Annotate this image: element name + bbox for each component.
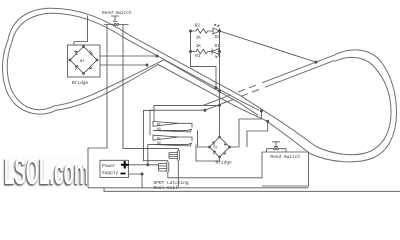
relay contact group 1 wedge — [153, 122, 179, 127]
power - wire — [129, 174, 142, 188]
power supply - terminal mark — [121, 173, 126, 175]
power enclosure: bus — [88, 187, 309, 189]
R2 resistor row — [191, 30, 214, 32]
bridge 2 diodes — [212, 142, 215, 146]
coil 2 lower terminal to reed 2 wire — [167, 172, 169, 178]
track A rail 2 — [52, 13, 259, 110]
svg-text:D1: D1 — [214, 147, 218, 151]
relay frame — [144, 110, 168, 162]
svg-text:NC: NC — [157, 136, 161, 140]
relay common wire 2 to track C — [150, 110, 205, 135]
LED circuit right wire down to track B — [219, 31, 221, 137]
track C rail 1 (right loop knee down-left, broken at crossings) — [262, 55, 334, 83]
svg-text:D2: D2 — [215, 34, 221, 40]
lower long wire — [104, 188, 400, 192]
coil 1 lower terminal to bus — [177, 161, 179, 188]
svg-text:NO: NO — [157, 127, 161, 131]
svg-text:NO: NO — [157, 141, 161, 145]
svg-text:Reed Switch: Reed Switch — [102, 10, 132, 16]
bridge 2 bottom terminal to relay NO2 — [196, 144, 220, 161]
relay contact group 1 NO row — [153, 129, 192, 132]
bridge 2 diamond — [210, 137, 230, 157]
svg-text:B1: B1 — [80, 60, 85, 64]
svg-text:D1: D1 — [215, 43, 221, 49]
svg-text:1K: 1K — [196, 43, 202, 49]
wire from NO row 2 down to + junction — [148, 144, 153, 164]
bridge 2 right terminal wires to track B junctions — [230, 111, 262, 147]
svg-text:Bridge: Bridge — [72, 80, 89, 86]
bridge 1 wires to loop — [74, 16, 88, 46]
LED D1 — [212, 49, 219, 55]
svg-text:Dual Coil: Dual Coil — [154, 185, 179, 191]
relay coil 2 — [159, 164, 167, 172]
power supply box — [100, 160, 129, 177]
svg-text:Reed Switch: Reed Switch — [270, 154, 300, 160]
reed switch 1 right wire down to coil 1 — [123, 25, 178, 152]
bridge 2 left terminal to relay — [198, 130, 210, 147]
bridge 1 diamond — [70, 47, 97, 74]
svg-text:1K: 1K — [196, 35, 202, 41]
bridge 1 box — [68, 45, 101, 77]
svg-text:Bridge: Bridge — [216, 160, 233, 166]
svg-text:R1: R1 — [195, 53, 201, 59]
bridge 1 diodes — [74, 51, 78, 56]
track A rail 1 (left loop top to right loop bottom) — [50, 8, 316, 146]
track C rail 2 — [265, 60, 335, 87]
svg-text:R2: R2 — [195, 23, 201, 29]
bridge 1 output wires to track B — [100, 55, 157, 57]
relay contact group 2 NO row — [153, 143, 192, 146]
svg-text:Power: Power — [102, 163, 116, 169]
relay common wire 1 to track C — [154, 105, 220, 121]
LED circuit left wire down to track A — [191, 31, 217, 88]
right loop outer — [310, 50, 397, 162]
right loop inner — [316, 57, 391, 154]
LSOL.com logo — [0, 155, 87, 190]
reed switch 1 left wire down to bus — [88, 25, 107, 188]
track B rail 2 — [54, 60, 258, 116]
diagonal feed wire to track C at right loop — [220, 31, 317, 62]
svg-text:Supply: Supply — [102, 170, 119, 176]
relay coil 1 — [169, 153, 177, 159]
power supply + terminal mark — [121, 161, 129, 169]
left loop outer rail — [3, 8, 56, 114]
reed 2 wiring box — [262, 152, 309, 186]
reed switch 1 symbol — [111, 16, 119, 22]
power + wire — [129, 164, 159, 166]
R1 resistor row — [191, 51, 220, 53]
reed switch 2 symbol — [272, 142, 280, 147]
relay contact group 2 wedge — [153, 135, 179, 140]
track B rail 1 (left loop bottom over apex to right loop bottom-left) — [56, 65, 310, 154]
left loop inner rail — [7, 13, 54, 109]
LED D2 — [213, 28, 220, 34]
